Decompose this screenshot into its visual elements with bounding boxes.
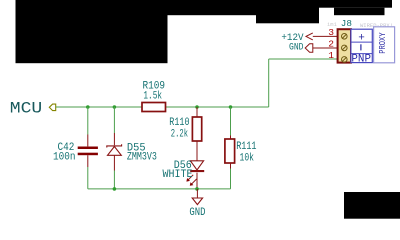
junction node at D55 bottom — [113, 187, 117, 191]
connector J8 pin circle 1 — [342, 57, 348, 63]
terminal divider 2 — [351, 53, 372, 55]
wire pin 2 — [313, 47, 338, 49]
terminal bar sign — [360, 44, 361, 50]
svg-text:10k: 10k — [240, 152, 255, 164]
hierarchical label arrow shape — [49, 104, 55, 111]
black region top block 5 — [334, 8, 385, 16]
black region top bar 3 — [256, 0, 319, 23]
svg-text:1.5k: 1.5k — [143, 91, 162, 103]
resistor R109 — [142, 103, 166, 112]
svg-text:WHITE: WHITE — [163, 169, 193, 181]
svg-text:GND: GND — [289, 41, 304, 53]
black region top bar 2 — [168, 0, 257, 15]
resistor R110 pin upper — [196, 107, 198, 117]
svg-text:MCU: MCU — [10, 100, 43, 118]
svg-text:PROXY: PROXY — [377, 32, 388, 54]
svg-text:2: 2 — [328, 38, 334, 49]
resistor R111 pin lower — [230, 163, 232, 169]
wire to connector pin 1 — [269, 58, 338, 60]
ground symbol triangle — [192, 198, 202, 205]
LED D56 cathode bar — [190, 170, 204, 172]
connector J8 pin circle 3 — [342, 34, 348, 40]
junction node at C42 — [86, 105, 90, 109]
black region top bar 4 — [319, 0, 392, 8]
connector J8 pin circle 2 — [342, 45, 348, 51]
svg-text:2.2k: 2.2k — [171, 129, 188, 141]
ground symbol stem — [196, 189, 198, 198]
junction node at GND — [195, 187, 199, 191]
junction node at R111 — [229, 105, 233, 109]
svg-text:im1: im1 — [327, 21, 338, 28]
resistor R110 — [192, 117, 201, 141]
LED D56 arrows — [187, 175, 193, 181]
junction node at D55 — [113, 105, 117, 109]
svg-text:1: 1 — [328, 50, 334, 61]
resistor R111 pin upper — [230, 107, 232, 136]
terminal divider 1 — [351, 41, 372, 43]
svg-text:100n: 100n — [53, 151, 76, 163]
wire bottom bus — [88, 188, 231, 190]
capacitor C42 plates — [78, 147, 98, 150]
wire vertical riser to connector — [268, 59, 270, 107]
svg-text:J8: J8 — [341, 18, 352, 29]
black region top-left block — [16, 0, 168, 63]
zener D55 pin lower — [113, 155, 115, 170]
wire main horizontal right of R109 — [166, 106, 269, 108]
LED D56 pin lower — [196, 173, 198, 189]
wire main horizontal left of R109 — [56, 106, 142, 108]
svg-text:3: 3 — [328, 27, 334, 38]
resistor R111 — [225, 139, 235, 163]
zener D55 cathode bar — [107, 144, 122, 147]
zener diode D55 pin upper — [113, 107, 115, 133]
svg-text:ZMM3V3: ZMM3V3 — [127, 151, 157, 163]
global label GND arrow — [305, 44, 313, 52]
svg-text:R111: R111 — [236, 141, 256, 153]
capacitor C42 pin lower — [87, 155, 89, 167]
global label +12V arrow — [306, 33, 313, 40]
LED D56 triangle — [190, 161, 203, 170]
svg-text:PNP: PNP — [351, 53, 371, 65]
black region bottom-right block — [344, 192, 400, 219]
capacitor C42 pin upper — [87, 107, 89, 135]
connector J8 body — [338, 29, 351, 62]
wire pin 3 — [313, 35, 338, 37]
svg-text:+: + — [358, 33, 365, 45]
svg-text:R110: R110 — [169, 117, 189, 129]
resistor R110 pin lower — [196, 141, 198, 161]
zener D55 triangle — [108, 147, 122, 156]
svg-text:GND: GND — [189, 207, 205, 219]
proxy box — [374, 27, 395, 63]
terminal block box — [351, 29, 372, 62]
junction node at R110 — [195, 105, 199, 109]
